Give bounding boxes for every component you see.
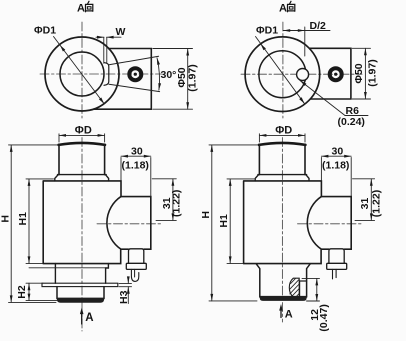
bottom button dark base (right) <box>260 296 307 301</box>
outer ring (right view) <box>245 37 320 112</box>
vertical centerline (right front view) <box>281 138 283 323</box>
view A title (right): A向 <box>279 1 295 14</box>
svg-text:30: 30 <box>332 146 344 158</box>
svg-text:ΦD: ΦD <box>75 125 92 137</box>
inner bore circle (right view) <box>259 51 306 98</box>
block outline (left top view) <box>93 49 151 110</box>
cable gland nut (right front) <box>327 263 347 269</box>
cable gland body (right front) <box>329 249 344 263</box>
dimension 31 (left) <box>152 179 176 221</box>
svg-text:(0.47): (0.47) <box>318 304 330 331</box>
svg-text:H2: H2 <box>16 285 28 299</box>
view A title (left): A向 <box>77 1 93 14</box>
svg-text:Φ50: Φ50 <box>353 63 365 83</box>
dimension Phi50 (right block) <box>352 48 370 99</box>
cable lines (right front) <box>333 269 337 279</box>
svg-text:D/2: D/2 <box>310 20 327 32</box>
dimension W <box>96 36 121 38</box>
hatching (section cut) <box>289 278 299 296</box>
dimension D/2 <box>283 27 330 56</box>
svg-text:(1.97): (1.97) <box>187 64 199 91</box>
cable gland body (left front) <box>129 249 144 263</box>
svg-text:H1: H1 <box>17 212 29 226</box>
load cap dome (left) <box>59 143 105 145</box>
dimension H1 (right) <box>227 179 254 264</box>
centerline cross (right ring) <box>241 22 362 118</box>
section cut blob left arc <box>289 278 299 297</box>
vertical centerline (left front view) <box>81 138 83 332</box>
dimension 30 (pod width, left view) <box>121 156 151 196</box>
svg-text:(1.18): (1.18) <box>322 159 349 171</box>
svg-text:H1: H1 <box>218 214 230 228</box>
svg-text:(0.24): (0.24) <box>338 116 365 128</box>
dimension 30 (pod width, right) <box>321 156 351 196</box>
body outline (right) <box>244 181 322 264</box>
section arrow A (left) <box>80 308 84 325</box>
R6 recess circle <box>297 69 309 81</box>
svg-text:ΦD1: ΦD1 <box>256 25 278 37</box>
pod centerline (right front view) <box>298 223 362 225</box>
dimension Phi50 (left, height of block) <box>153 49 193 110</box>
leader R6 <box>300 81 368 116</box>
outer ring (left view) <box>45 37 119 111</box>
svg-text:30°: 30° <box>161 69 177 81</box>
flange (left) <box>55 175 109 181</box>
svg-text:ΦD: ΦD <box>275 125 292 137</box>
dimension PhiD (left cap) <box>59 134 105 142</box>
slot lines (width W) <box>104 38 107 63</box>
svg-text:H3: H3 <box>118 290 130 304</box>
slot pocket <box>104 63 109 86</box>
leader PhiD1 right with diameter arrows <box>256 37 305 104</box>
30 degree dimension arc <box>157 58 160 90</box>
flange (right) <box>255 175 309 181</box>
load cap sides (left) <box>59 144 105 174</box>
body outline (left) <box>43 181 121 264</box>
load cap sides (right) <box>259 144 305 174</box>
dimension H1 (left) <box>26 179 54 264</box>
cable gland nut (left front) <box>126 263 146 269</box>
lower neck (left) <box>55 264 108 284</box>
svg-text:A: A <box>279 3 287 15</box>
svg-text:30: 30 <box>131 146 143 158</box>
dimension 12 (recess depth) <box>302 278 320 301</box>
dimension 31 (right) <box>353 179 375 221</box>
cable inner line <box>134 269 136 277</box>
dimension H (right) <box>209 145 258 301</box>
cable gland ring (left top view) <box>129 68 141 80</box>
svg-text:ΦD1: ΦD1 <box>34 25 56 37</box>
dimension H (left) <box>9 145 58 303</box>
bottom button sides (left) <box>57 287 104 299</box>
svg-text:(1.22): (1.22) <box>170 190 182 217</box>
svg-text:A: A <box>77 3 85 15</box>
svg-text:H: H <box>0 215 11 223</box>
svg-text:A: A <box>85 312 93 324</box>
centerline cross (left ring) <box>40 22 162 118</box>
dimension PhiD (right cap) <box>259 134 305 142</box>
svg-text:H: H <box>200 211 212 219</box>
bottom button with chamfered shoulders (right) <box>256 264 310 297</box>
recess bore wall (section) <box>300 281 307 297</box>
svg-text:(1.18): (1.18) <box>122 159 149 171</box>
section arrow A (right) <box>279 304 283 318</box>
load cap dome (right) <box>259 143 305 145</box>
base plate (left) <box>42 283 118 286</box>
svg-text:(1.97): (1.97) <box>367 59 379 86</box>
svg-text:(1.22): (1.22) <box>371 190 383 217</box>
cable gland center dot <box>134 73 137 76</box>
svg-text:31: 31 <box>359 198 371 210</box>
dimension H3 (plate thickness) <box>119 277 132 304</box>
pod centerline (left front view) <box>97 223 161 225</box>
cable U-bend (left front) <box>131 269 138 281</box>
dimension H2 (left) <box>26 268 108 301</box>
pod outline (left) <box>107 197 151 250</box>
cable gland ring (right top view) <box>330 68 342 80</box>
cable gland center dot (right) <box>334 73 337 76</box>
30 degree angle lines <box>109 56 160 91</box>
bottom button dark base (left) <box>57 298 104 303</box>
block outline (right top view) <box>310 48 351 99</box>
inner bore circle (left view) <box>60 52 104 96</box>
pod outline (right) <box>307 197 351 250</box>
svg-text:A: A <box>285 308 293 320</box>
svg-text:W: W <box>116 26 126 38</box>
leader PhiD1 with diameter arrows <box>54 37 105 105</box>
